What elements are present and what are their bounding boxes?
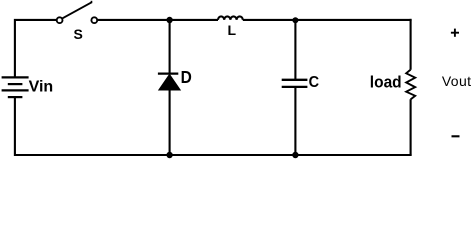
wire: bottom horizontal, diode to capacitor <box>170 154 296 156</box>
svg-text:C: C <box>309 73 319 91</box>
resistor load zigzag <box>406 70 415 100</box>
battery Vin: lower long plate <box>2 89 29 91</box>
battery Vin: bottom short plate <box>8 96 23 98</box>
label − (Vout negative terminal) <box>452 135 460 137</box>
diode D cathode bar <box>158 72 178 74</box>
wire: capacitor branch upper segment <box>294 20 296 79</box>
wire: diode branch upper segment <box>169 20 171 74</box>
switch S: left contact circle <box>57 17 63 23</box>
capacitor C top plate <box>282 79 308 81</box>
battery Vin: upper short plate <box>8 83 23 85</box>
capacitor C bottom plate <box>282 86 308 88</box>
wire: diode branch lower segment <box>169 90 171 156</box>
wire: right vertical upper segment <box>411 20 412 70</box>
node: junction dot at capacitor top <box>292 17 298 23</box>
svg-text:Vin: Vin <box>29 79 54 96</box>
node: junction dot at diode bottom <box>166 152 172 158</box>
switch S: right contact circle <box>91 17 97 23</box>
node: junction dot at diode top <box>166 17 172 23</box>
wire: right vertical lower segment <box>411 99 412 155</box>
label + (Vout positive terminal) <box>451 29 459 37</box>
switch S: lever tip tick <box>91 1 93 3</box>
battery Vin: top long plate <box>2 76 29 78</box>
wire: left vertical (battery bottom to bottom-left corner) <box>15 97 170 155</box>
node: junction dot at capacitor bottom <box>292 152 298 158</box>
svg-text:load: load <box>370 73 402 92</box>
wire: capacitor branch lower segment <box>294 88 296 155</box>
svg-text:L: L <box>228 22 237 38</box>
inductor L coil <box>218 16 243 20</box>
wire: top horizontal, inductor to top-right corner <box>243 19 412 21</box>
wire: bottom horizontal, capacitor to bottom-right corner <box>295 154 411 156</box>
wire: left vertical (top of battery to top-left corner) <box>15 20 57 78</box>
switch S: lever arm <box>62 2 91 18</box>
wire: top horizontal, switch to inductor <box>97 19 218 21</box>
svg-text:Vout: Vout <box>442 73 471 89</box>
svg-text:S: S <box>74 26 83 42</box>
svg-text:D: D <box>181 68 192 87</box>
diode D triangle (anode, pointing up) <box>159 74 180 90</box>
